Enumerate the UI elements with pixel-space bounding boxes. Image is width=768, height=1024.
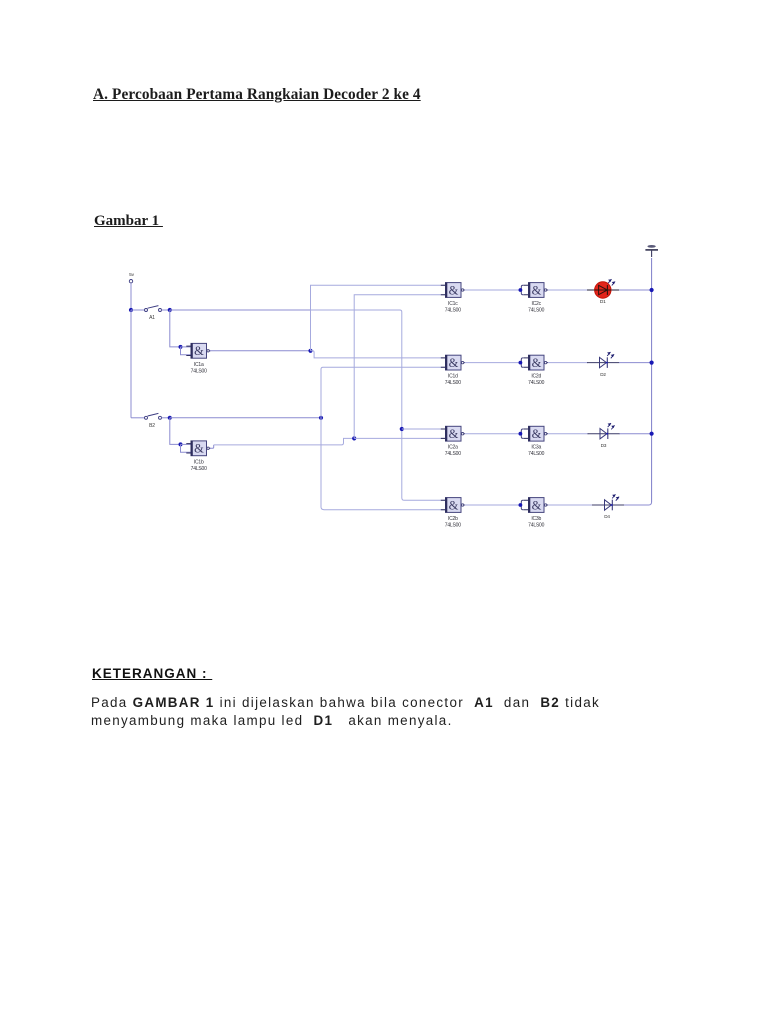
op IC1c NAND gate — [441, 282, 465, 297]
wire D4 to bus corner — [624, 502, 652, 505]
node bus-D3 junction — [650, 432, 654, 436]
op IC2d NAND gate — [519, 355, 549, 370]
wire ground bus — [651, 258, 653, 502]
svg-text:74LS00: 74LS00 — [528, 380, 544, 386]
svg-text:IC2c: IC2c — [531, 301, 541, 307]
wire B direct run — [170, 417, 321, 419]
svg-text:&: & — [449, 427, 459, 441]
wire IC1b top input — [181, 443, 192, 445]
op IC3a NAND gate — [519, 426, 549, 441]
svg-text:74LS00: 74LS00 — [445, 522, 461, 528]
led D4 — [592, 494, 624, 519]
ground symbol — [645, 245, 658, 257]
svg-text:74LS00: 74LS00 — [445, 451, 461, 457]
node 5V/A1 junction — [129, 308, 133, 312]
svg-text:74LS00: 74LS00 — [528, 307, 544, 313]
wire B-not up to IC1c input B — [354, 295, 445, 439]
svg-text:&: & — [449, 283, 459, 297]
svg-text:74LS00: 74LS00 — [445, 380, 461, 386]
wire IC3a out — [548, 433, 589, 435]
wire B-not run — [214, 438, 355, 445]
node B2 output junction — [168, 416, 172, 420]
wire IC2c out — [548, 289, 587, 291]
led D3 — [588, 423, 620, 448]
svg-text:A1: A1 — [149, 315, 155, 321]
wire B up to IC1d input B — [321, 367, 446, 418]
svg-text:D4: D4 — [604, 514, 610, 519]
svg-text:IC1c: IC1c — [448, 301, 458, 307]
wire D3 to bus — [620, 433, 652, 435]
wire IC1a tied-input loop — [181, 347, 192, 355]
wire left rail down to B2 — [130, 310, 132, 418]
svg-text:D3: D3 — [601, 443, 607, 448]
svg-text:&: & — [532, 498, 542, 512]
svg-text:&: & — [194, 344, 204, 358]
heading: KETERANGAN : — [92, 666, 212, 681]
svg-text:IC1b: IC1b — [194, 460, 204, 466]
op IC1b NAND gate — [186, 441, 210, 456]
power source 5V terminal — [129, 272, 134, 283]
paragraph — [91, 694, 651, 731]
wire IC3b out — [548, 504, 593, 506]
svg-text:IC2b: IC2b — [448, 516, 458, 522]
svg-text:IC2a: IC2a — [448, 445, 458, 451]
wire D2 to bus — [619, 362, 652, 364]
node A1 output junction — [168, 308, 172, 312]
led D1 (on, red) — [587, 279, 620, 305]
svg-text:74LS00: 74LS00 — [191, 466, 207, 472]
node B direct junction — [319, 416, 323, 420]
node IC1b input junction — [179, 442, 183, 446]
svg-text:74LS00: 74LS00 — [528, 451, 544, 457]
heading: Gambar 1 — [94, 213, 163, 230]
wire IC1a top input — [181, 346, 192, 348]
wire IC1b output jog — [210, 445, 214, 448]
switch A1 — [131, 306, 170, 312]
node bus-D1 junction — [650, 288, 654, 292]
svg-text:IC3a: IC3a — [531, 445, 541, 451]
wire D1 to bus — [619, 289, 652, 291]
wire A direct run — [170, 309, 310, 311]
op IC3b NAND gate — [519, 497, 549, 512]
node IC1a input junction — [179, 345, 183, 349]
wire B-not to IC2a input B — [354, 437, 445, 439]
wire IC1a output — [210, 350, 311, 352]
switch B2 — [131, 413, 170, 419]
circuit schematic — [0, 0, 768, 620]
led D2 — [587, 352, 619, 377]
node B-not junction — [352, 436, 356, 440]
op IC2c NAND gate — [519, 282, 549, 297]
svg-text:74LS00: 74LS00 — [191, 368, 207, 374]
svg-text:B2: B2 — [149, 423, 155, 429]
node bus-D2 junction — [650, 361, 654, 365]
wire B2 to IC1b input — [170, 418, 181, 445]
svg-text:D2: D2 — [600, 372, 606, 377]
op IC2b NAND gate — [441, 497, 465, 512]
wire IC1d out — [465, 362, 521, 364]
wire IC2b out — [465, 504, 521, 506]
wire A-not jog to IC1d input A — [311, 351, 446, 358]
wire A direct run continued — [310, 310, 446, 500]
svg-text:IC1d: IC1d — [448, 374, 458, 380]
svg-text:74LS00: 74LS00 — [528, 522, 544, 528]
svg-text:IC1a: IC1a — [194, 362, 204, 368]
heading: A. Percobaan Pertama Rangkaian Decoder 2 ke 4 — [93, 86, 421, 104]
svg-text:74LS00: 74LS00 — [445, 307, 461, 313]
wire IC1b tied-input loop — [181, 444, 192, 452]
wire IC1c out — [465, 289, 521, 291]
wire A to IC2a input A — [402, 428, 446, 430]
svg-text:&: & — [449, 498, 459, 512]
wire A-not up to IC1c input A — [311, 285, 446, 351]
svg-text:&: & — [449, 356, 459, 370]
wire IC2d out — [548, 362, 588, 364]
svg-text:&: & — [532, 283, 542, 297]
wire A1 to IC1a input — [170, 310, 181, 347]
svg-text:&: & — [532, 356, 542, 370]
op IC2a NAND gate — [441, 426, 465, 441]
op IC1a NAND gate — [186, 343, 210, 358]
node IC1a output junction — [308, 349, 312, 353]
svg-text:5v: 5v — [129, 272, 134, 278]
svg-text:IC3b: IC3b — [531, 516, 541, 522]
svg-text:IC2d: IC2d — [531, 374, 541, 380]
wire IC2a out — [465, 433, 521, 435]
op IC1d NAND gate — [441, 355, 465, 370]
wire 5V stem — [130, 283, 132, 310]
node A direct junction — [400, 427, 404, 431]
wire B down to IC2b input B — [321, 418, 446, 510]
svg-text:&: & — [194, 442, 204, 456]
svg-text:&: & — [532, 427, 542, 441]
svg-text:D1: D1 — [600, 299, 606, 305]
